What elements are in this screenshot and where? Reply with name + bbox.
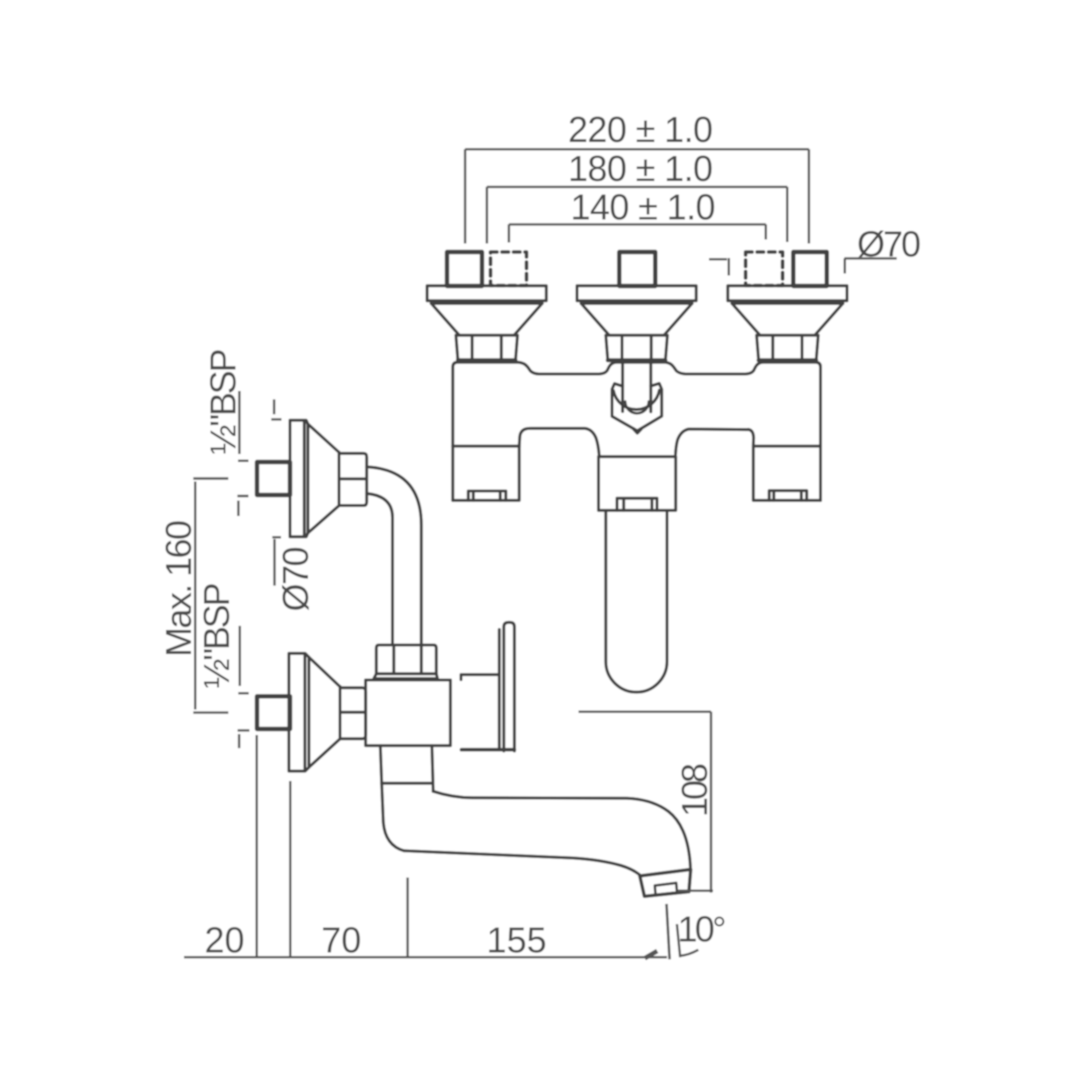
handle blade inner edge [498, 630, 501, 749]
middle escutcheon cone [581, 303, 692, 335]
handle blade [504, 622, 515, 751]
angle tick on baseline [645, 951, 657, 958]
svg-text:20: 20 [204, 919, 244, 960]
upper stub bottom tick [237, 496, 248, 516]
dim 180 line [487, 187, 787, 244]
extension wall face [256, 735, 258, 957]
riser nut collar [374, 674, 438, 679]
left foot [453, 428, 530, 500]
spout bottom profile [382, 783, 642, 876]
dim 220 line [465, 149, 809, 243]
extension flange back [289, 781, 291, 957]
right handle stem alternative (dashed) [746, 252, 783, 286]
riser pipe bend [367, 467, 421, 645]
half bsp upper bracket [238, 391, 249, 461]
extension spout axis [406, 878, 408, 958]
spout base tab [617, 498, 657, 510]
left escutcheon nut [456, 335, 518, 360]
riser compression nut [376, 645, 436, 674]
right handle stem (solid) [793, 252, 827, 286]
right foot tab [769, 491, 807, 501]
svg-text:Max. 160: Max. 160 [158, 520, 199, 657]
svg-text:Ø70: Ø70 [275, 547, 316, 612]
angle line tilted [677, 924, 698, 957]
lower stub bottom tick [238, 730, 250, 748]
left escutcheon cone [431, 303, 542, 335]
dim 108 lines [579, 712, 714, 893]
svg-text:½"BSP: ½"BSP [203, 349, 244, 455]
lower inlet stub [257, 696, 290, 729]
lower inlet cone [309, 657, 340, 767]
diverter hex tip [634, 429, 642, 433]
dim mark near right dashed stem [709, 258, 729, 276]
left handle stem alternative (dashed) [491, 252, 527, 286]
diverter stem U bottom [625, 402, 649, 414]
max160 bracket [193, 479, 228, 713]
spout aerator [655, 883, 677, 895]
body step line right [754, 445, 821, 448]
left handle stem (solid) [447, 252, 482, 286]
right foot [748, 429, 820, 500]
upper inlet nut [339, 452, 367, 505]
svg-text:155: 155 [487, 920, 547, 961]
spout top profile [433, 791, 690, 868]
valve body side [366, 680, 451, 746]
right escutcheon flange [728, 286, 847, 304]
half bsp lower bracket [238, 626, 248, 693]
diverter stem front [623, 361, 651, 412]
middle handle stem [619, 252, 655, 286]
diverter collar arc [613, 390, 659, 409]
svg-text:220 ± 1.0: 220 ± 1.0 [568, 109, 713, 150]
diverter hex nut front [612, 383, 662, 430]
svg-text:10°: 10° [678, 909, 727, 950]
middle escutcheon nut [606, 335, 668, 360]
mixer body outline front [453, 362, 821, 500]
front spout cylinder [606, 511, 667, 692]
bottom bridge left [531, 428, 600, 455]
upper inlet flange [290, 420, 308, 537]
dia70 side leader [272, 537, 281, 585]
handle bottom plate [462, 748, 515, 752]
svg-text:180 ± 1.0: 180 ± 1.0 [568, 148, 713, 189]
svg-text:½"BSP: ½"BSP [196, 583, 237, 689]
upper flange tick [271, 399, 281, 419]
lower inlet nut [340, 687, 366, 739]
right escutcheon cone [732, 303, 843, 335]
dim 140 line [509, 224, 766, 242]
bottom bridge right [676, 429, 749, 455]
right escutcheon nut [757, 335, 819, 360]
lower inlet flange [289, 653, 309, 771]
svg-text:140 ± 1.0: 140 ± 1.0 [571, 187, 716, 228]
spout tip block [640, 869, 691, 896]
spout base block [599, 457, 676, 511]
svg-text:108: 108 [674, 763, 715, 817]
body step line left [453, 445, 519, 448]
svg-text:70: 70 [321, 919, 361, 960]
left escutcheon flange [427, 286, 546, 304]
middle escutcheon flange [577, 286, 696, 304]
upper inlet stub [257, 462, 290, 495]
bottom baseline [184, 956, 667, 958]
spout shank [380, 746, 433, 792]
handle lever arm [461, 675, 499, 680]
svg-text:Ø70: Ø70 [857, 224, 921, 265]
dia70 top leader [844, 258, 896, 273]
angle line vertical [667, 904, 670, 959]
left foot tab [468, 491, 506, 500]
upper inlet cone [308, 424, 339, 533]
